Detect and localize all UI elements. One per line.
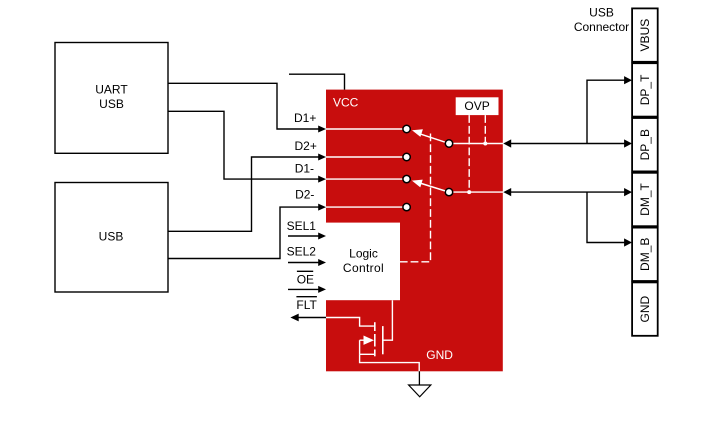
svg-text:D1+: D1+ <box>294 111 316 125</box>
wire D2+ from USB <box>168 157 319 231</box>
svg-text:D1-: D1- <box>295 162 314 176</box>
connector pin GND <box>632 282 658 335</box>
connector pin VBUS <box>632 8 658 61</box>
svg-text:D2+: D2+ <box>295 139 317 153</box>
wire VCC <box>289 74 345 89</box>
connector pin DP_T <box>632 63 658 116</box>
gate bar <box>382 326 384 354</box>
wire SEL2 <box>288 262 319 264</box>
wire branch to DP_T <box>587 76 632 143</box>
wire D2- from USB <box>168 207 319 258</box>
select control dashed line <box>400 134 431 262</box>
svg-text:DM_B: DM_B <box>638 238 652 271</box>
switch contact D1- <box>403 175 410 182</box>
wire OE <box>288 288 319 290</box>
box Logic Control <box>326 223 400 301</box>
label OE (overbar) <box>297 271 314 286</box>
throw line D1- (white) <box>326 178 403 180</box>
svg-text:GND: GND <box>638 295 652 322</box>
junction dot on DP_B <box>483 142 487 146</box>
FLT internal wire to FET drain <box>326 318 374 327</box>
svg-text:DP_T: DP_T <box>638 74 652 105</box>
body lead with arrow <box>360 339 364 341</box>
svg-text:OVP: OVP <box>464 99 489 113</box>
source to GND rail <box>360 354 420 371</box>
throw line D2- (white) <box>326 206 403 208</box>
GND stem <box>418 371 420 385</box>
body-source tie <box>359 340 361 354</box>
connector pin DM_B <box>632 228 658 281</box>
svg-text:Connector: Connector <box>574 20 629 34</box>
source lead <box>360 353 375 355</box>
switch arm DP (white arrow to D1+) <box>412 129 445 142</box>
switch pole DP <box>445 140 452 147</box>
svg-text:Logic: Logic <box>349 247 378 261</box>
wire DP_B double arrow <box>503 139 632 147</box>
arrow D1+ <box>318 126 326 133</box>
switch pole DM <box>445 188 452 195</box>
svg-text:GND: GND <box>426 348 453 362</box>
arrow OE <box>318 286 326 293</box>
wire D1- from UART <box>168 111 319 179</box>
OVP dashed line to DM_T <box>468 115 470 190</box>
arrow FLT (points left) <box>290 314 298 322</box>
junction dot on DM_T <box>467 190 471 194</box>
svg-text:DM_T: DM_T <box>638 183 652 216</box>
arrow SEL2 <box>318 259 326 266</box>
pole line DM (white) <box>453 191 504 193</box>
IC red box <box>326 90 503 372</box>
box UART USB <box>55 43 168 154</box>
label FLT (overbar) <box>296 297 317 313</box>
svg-text:SEL1: SEL1 <box>287 219 317 233</box>
throw line D2+ (white) <box>326 156 403 158</box>
svg-text:USB: USB <box>99 230 124 244</box>
box OVP <box>456 97 499 115</box>
channel bar segments <box>374 322 376 331</box>
wire D1+ from UART <box>168 83 319 129</box>
wire FLT (output) <box>298 317 327 319</box>
box USB <box>55 183 168 293</box>
pole line DP (white) <box>453 143 504 145</box>
svg-text:SEL2: SEL2 <box>287 245 317 259</box>
arrow D2+ <box>318 154 326 161</box>
svg-text:VBUS: VBUS <box>638 19 652 52</box>
svg-text:FLT: FLT <box>296 298 317 312</box>
transistor Q1 (open-drain NMOS) <box>360 300 393 356</box>
svg-text:VCC: VCC <box>333 96 359 110</box>
switch arm DM (white arrow to D1-) <box>412 180 445 191</box>
arrow D2- <box>318 204 326 211</box>
ground symbol <box>409 385 431 397</box>
connector pin DM_T <box>632 173 658 226</box>
gate lead to logic <box>383 300 393 340</box>
label USB Connector <box>574 6 629 34</box>
svg-text:USB: USB <box>99 97 124 111</box>
switch contact D1+ <box>403 125 410 132</box>
svg-text:USB: USB <box>589 6 614 20</box>
svg-text:D2-: D2- <box>295 188 314 202</box>
arrow SEL1 <box>318 233 326 240</box>
switch contact D2- <box>403 203 410 210</box>
svg-text:OE: OE <box>297 272 314 286</box>
throw line D1+ (white) <box>326 128 403 130</box>
wire SEL1 <box>288 235 319 237</box>
connector pin DP_B <box>632 118 658 171</box>
svg-text:DP_B: DP_B <box>638 129 652 160</box>
svg-text:Control: Control <box>343 261 384 275</box>
switch contact D2+ <box>403 153 410 160</box>
wire DM_T double arrow <box>503 188 632 196</box>
svg-text:UART: UART <box>95 82 128 96</box>
OVP dashed line to DP_B <box>484 115 486 141</box>
arrow D1- <box>318 176 326 183</box>
wire branch to DM_B <box>587 192 632 247</box>
